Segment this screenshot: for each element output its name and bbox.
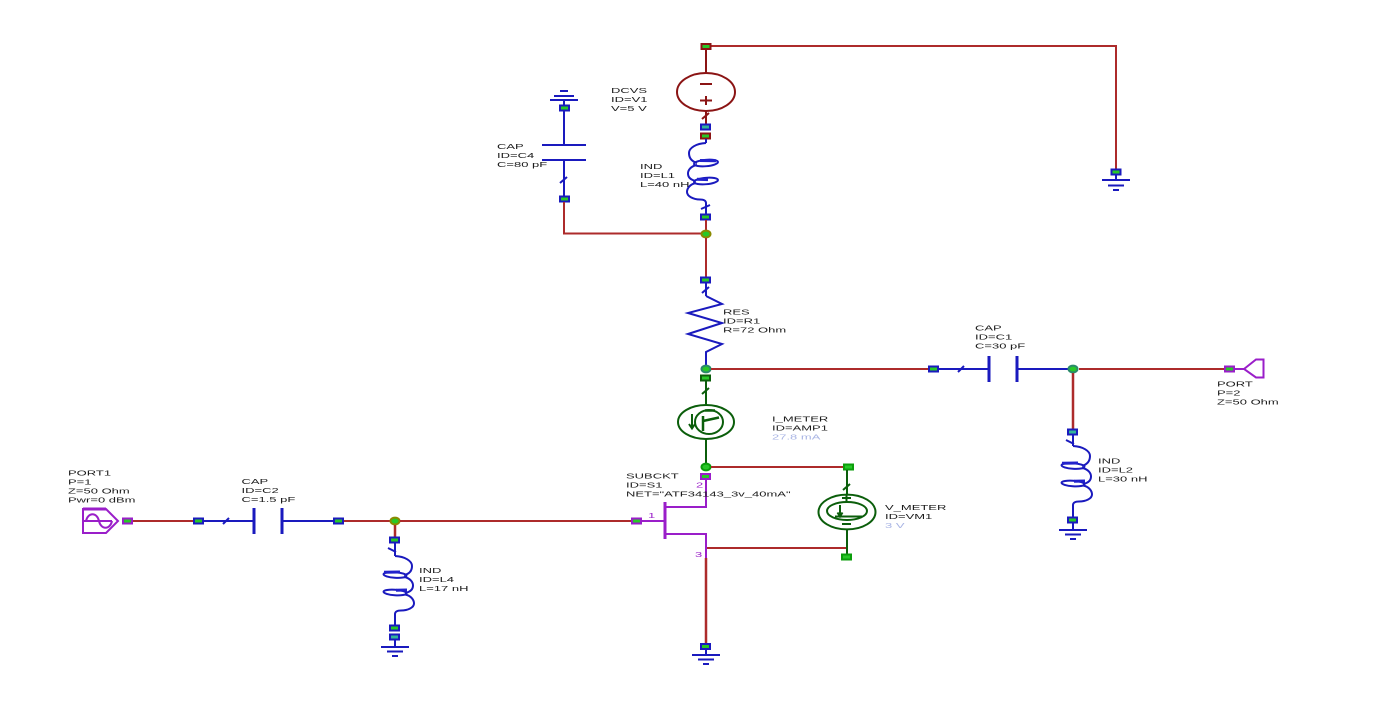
svg-text:RES: RES bbox=[723, 309, 750, 316]
svg-text:1: 1 bbox=[648, 513, 655, 520]
PORT2 label bbox=[1217, 381, 1279, 406]
pin number 1 bbox=[648, 513, 655, 520]
PORT1 pin bbox=[123, 519, 132, 524]
svg-text:V_METER: V_METER bbox=[885, 505, 947, 512]
ground right (below wire) bbox=[1102, 170, 1130, 191]
transistor SUBCKT S1 pin 2 bbox=[701, 474, 710, 479]
wire node E to PORT2 bbox=[1079, 368, 1224, 370]
inductor L4 label bbox=[419, 568, 468, 593]
transistor SUBCKT S1 pin 1 square bbox=[632, 519, 641, 524]
svg-text:CAP: CAP bbox=[497, 144, 524, 151]
SUBCKT label bbox=[626, 473, 791, 498]
svg-text:ID=L2: ID=L2 bbox=[1098, 467, 1133, 474]
capacitor C2 right pin bbox=[334, 519, 343, 524]
PORT2 pin bbox=[1225, 367, 1234, 372]
ground right-lower bbox=[1059, 523, 1087, 539]
svg-text:SUBCKT: SUBCKT bbox=[626, 473, 679, 480]
wire source to ground bbox=[705, 558, 708, 643]
svg-text:IND: IND bbox=[1098, 458, 1121, 465]
svg-text:PORT: PORT bbox=[1217, 381, 1254, 388]
ground top (inverted) bbox=[550, 91, 578, 105]
svg-text:ID=AMP1: ID=AMP1 bbox=[772, 425, 828, 432]
capacitor C2 left pin bbox=[194, 519, 203, 524]
PORT1 symbol bbox=[83, 509, 118, 533]
svg-text:P=1: P=1 bbox=[68, 479, 92, 486]
ground left bbox=[381, 640, 409, 656]
DCVS bottom pin bbox=[701, 125, 710, 130]
svg-text:27.8 mA: 27.8 mA bbox=[772, 434, 820, 441]
inductor L4 loop accents bbox=[384, 572, 407, 590]
svg-text:3: 3 bbox=[695, 552, 702, 559]
inductor L4 (mirrored) bbox=[383, 543, 414, 625]
wire PORT1 to C2 bbox=[133, 520, 194, 522]
svg-text:ID=L1: ID=L1 bbox=[640, 173, 675, 180]
inductor L2 top pin bbox=[1068, 430, 1077, 435]
transistor SUBCKT S1 (FET) bbox=[640, 480, 706, 558]
svg-text:C=80 pF: C=80 pF bbox=[497, 162, 547, 169]
svg-text:ID=VM1: ID=VM1 bbox=[885, 514, 933, 521]
PORT2 symbol bbox=[1235, 360, 1264, 378]
node B junction (drain node) bbox=[702, 366, 711, 373]
svg-text:C=30 pF: C=30 pF bbox=[975, 343, 1025, 350]
inductor L1 loop accents bbox=[697, 161, 716, 180]
voltmeter V_METER VM1 bbox=[819, 470, 876, 554]
wire top node to right bbox=[706, 46, 1116, 170]
wire node D to gate bbox=[400, 520, 631, 522]
capacitor C4 top pin bbox=[560, 106, 569, 111]
wire source to voltmeter bbox=[707, 547, 846, 549]
voltmeter bottom pin bbox=[842, 555, 851, 560]
inductor L2 loop accents bbox=[1062, 463, 1085, 481]
inductor L4 top pin bbox=[390, 538, 399, 543]
capacitor C1 label bbox=[975, 325, 1025, 350]
inductor L4 bottom pin bbox=[390, 626, 399, 631]
inductor L1 bottom pin bbox=[701, 215, 710, 220]
ground bottom center bbox=[701, 644, 710, 649]
capacitor C4 label bbox=[497, 144, 547, 169]
resistor R1 top pin bbox=[701, 278, 710, 283]
DCVS V1 source bbox=[677, 50, 735, 125]
ammeter I_METER top pin bbox=[701, 376, 710, 381]
svg-text:Z=50 Ohm: Z=50 Ohm bbox=[1217, 399, 1279, 406]
svg-text:PORT1: PORT1 bbox=[68, 470, 111, 477]
ammeter I_METER AMP1 bbox=[678, 381, 734, 463]
svg-text:IND: IND bbox=[419, 568, 442, 575]
wire C2 to node D bbox=[344, 520, 390, 522]
svg-text:ID=C1: ID=C1 bbox=[975, 334, 1012, 341]
svg-text:ID=S1: ID=S1 bbox=[626, 482, 663, 489]
voltmeter label bbox=[885, 505, 947, 530]
svg-text:IND: IND bbox=[640, 164, 663, 171]
wire C4 to node A bbox=[564, 202, 704, 234]
svg-text:V=5 V: V=5 V bbox=[611, 106, 647, 113]
svg-text:L=30 nH: L=30 nH bbox=[1098, 476, 1147, 483]
svg-text:ID=C4: ID=C4 bbox=[497, 153, 534, 160]
svg-text:ID=V1: ID=V1 bbox=[611, 97, 648, 104]
svg-text:Z=50 Ohm: Z=50 Ohm bbox=[68, 488, 130, 495]
resistor R1 bbox=[688, 283, 722, 365]
svg-text:L=17 nH: L=17 nH bbox=[419, 586, 468, 593]
ammeter label bbox=[772, 416, 829, 441]
svg-text:NET="ATF34143_3v_40mA": NET="ATF34143_3v_40mA" bbox=[626, 491, 791, 498]
inductor L1 label bbox=[640, 164, 689, 189]
node D junction (gate node) bbox=[391, 518, 400, 525]
svg-text:P=2: P=2 bbox=[1217, 390, 1241, 397]
voltmeter V_METER top pin bbox=[844, 465, 853, 470]
svg-text:CAP: CAP bbox=[975, 325, 1002, 332]
inductor L1 top pin bbox=[701, 134, 710, 139]
capacitor C4 body bbox=[542, 111, 586, 196]
ground pin left bbox=[390, 635, 399, 640]
node A junction bbox=[702, 231, 711, 238]
inductor L1 bbox=[687, 139, 718, 214]
DCVS V1 label bbox=[611, 88, 648, 113]
node E junction (output) bbox=[1069, 366, 1078, 373]
wire L1 to node A bbox=[705, 220, 707, 231]
capacitor C1 left pin bbox=[929, 367, 938, 372]
svg-text:Pwr=0 dBm: Pwr=0 dBm bbox=[68, 497, 136, 504]
pin number 2 bbox=[696, 482, 703, 489]
wire node C to V_METER bbox=[711, 466, 846, 468]
node top pin square bbox=[702, 44, 711, 49]
PORT1 label bbox=[68, 470, 136, 504]
capacitor C2 bbox=[204, 508, 333, 534]
svg-text:I_METER: I_METER bbox=[772, 416, 829, 423]
inductor L2 (mirrored) bbox=[1061, 435, 1092, 517]
capacitor C1 bbox=[939, 356, 1068, 382]
node C junction (ammeter out) bbox=[702, 464, 711, 471]
inductor L2 bottom pin bbox=[1068, 518, 1077, 523]
pin number 3 bbox=[695, 552, 702, 559]
resistor R1 label bbox=[723, 309, 786, 334]
svg-text:R=72 Ohm: R=72 Ohm bbox=[723, 327, 786, 334]
capacitor C4 bottom pin bbox=[560, 197, 569, 202]
wire node E down to L2 bbox=[1072, 373, 1075, 429]
svg-text:3 V: 3 V bbox=[885, 523, 905, 530]
inductor L2 label bbox=[1098, 458, 1147, 483]
wire node D down to L4 bbox=[394, 525, 397, 538]
svg-text:L=40 nH: L=40 nH bbox=[640, 182, 689, 189]
svg-text:CAP: CAP bbox=[242, 479, 269, 486]
capacitor C2 label bbox=[242, 479, 296, 504]
svg-text:ID=C2: ID=C2 bbox=[242, 488, 279, 495]
svg-text:DCVS: DCVS bbox=[611, 88, 647, 95]
svg-text:ID=R1: ID=R1 bbox=[723, 318, 760, 325]
svg-text:C=1.5 pF: C=1.5 pF bbox=[242, 497, 296, 504]
wire node A to R1 bbox=[705, 238, 707, 277]
svg-text:2: 2 bbox=[696, 482, 703, 489]
wire node B to C1 bbox=[711, 368, 930, 370]
svg-text:ID=L4: ID=L4 bbox=[419, 577, 454, 584]
